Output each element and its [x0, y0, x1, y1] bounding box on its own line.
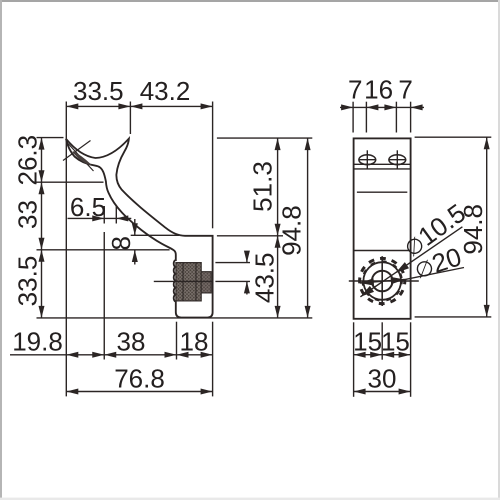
arrowheads 15 right	[382, 352, 394, 358]
extension line top right view	[415, 136, 492, 138]
leader line diameter 20 (polyline)	[360, 268, 464, 284]
arrowheads 33.5	[66, 103, 78, 109]
svg-text:7: 7	[398, 75, 412, 105]
screw 2 horizontal slot line	[388, 159, 406, 161]
extension line y=138.1 top right	[217, 137, 312, 139]
knurl serration dashed ring	[360, 258, 405, 303]
plate parting line (inset)	[357, 191, 407, 193]
screw 1 horizontal slot line	[358, 159, 376, 161]
dimension line 19.8/38/18	[10, 354, 213, 356]
dimension line 30	[354, 391, 411, 393]
dimension line left column	[41, 138, 43, 318]
leader arrowheads diameter 20	[391, 276, 406, 284]
extension line x=104.3 lower part	[103, 232, 105, 360]
svg-text:16: 16	[364, 75, 393, 105]
svg-text:51.3: 51.3	[248, 161, 278, 212]
svg-text:43.2: 43.2	[140, 76, 191, 106]
svg-text:15: 15	[353, 327, 382, 357]
small dim lower segment x=246.9	[246, 281, 248, 294]
arrowheads 43.2	[130, 103, 142, 109]
arrowheads 18	[177, 352, 189, 358]
border frame	[0, 0, 500, 2]
arrowheads 33.5 left	[39, 250, 45, 262]
screw 2 ellipse head	[389, 155, 406, 165]
svg-text:26.3: 26.3	[13, 135, 43, 186]
svg-text:33: 33	[13, 200, 43, 229]
bracket side-view outline (saddle, arm, wall plate)	[66, 139, 213, 318]
svg-text:76.8: 76.8	[114, 363, 165, 393]
extension line bottom right view	[415, 316, 492, 318]
dimension line 15/15	[354, 354, 411, 356]
extension line knurl centre y=281.4	[215, 280, 250, 282]
arrowhead right 7 (outside)	[411, 104, 423, 110]
dimension line 7/16/7	[340, 106, 424, 108]
arrowheads 19.8	[66, 352, 78, 358]
extension line saddle centre (x=130.4)	[129, 102, 131, 135]
dimension line 8 (lower segment)	[134, 250, 136, 264]
dimension line 76.8	[66, 391, 212, 393]
dimension line 8 (upper segment)	[134, 219, 136, 235]
extension line wall face (x=212.6)	[212, 102, 214, 229]
arrowheads 6.5 (outside)	[92, 215, 104, 221]
svg-text:33.5: 33.5	[73, 76, 124, 106]
extension line left tip (x=66.3)	[65, 102, 67, 397]
dimension line 6.5	[68, 217, 132, 219]
arrowheads 15 left	[354, 352, 366, 358]
leader line diameter 10.5	[360, 227, 462, 297]
arrowheads 26.3	[39, 138, 45, 150]
extension line 8-dim top y=235.3	[131, 234, 179, 236]
dimension line 33.5/43.2	[66, 105, 212, 107]
extension line y=182.2	[37, 181, 104, 183]
arrowheads 33 left	[39, 182, 45, 194]
svg-text:38: 38	[117, 327, 146, 357]
center line through knurl	[154, 280, 213, 282]
threaded stud protruding to wall	[201, 272, 211, 293]
svg-text:18: 18	[180, 327, 209, 357]
screw band line upper	[354, 163, 411, 165]
svg-text:15: 15	[381, 327, 410, 357]
dimension line 51.3/43.5	[277, 138, 279, 318]
leader arrowheads diameter 10.5	[393, 262, 409, 276]
knurl serration inner dashed ring	[362, 261, 402, 301]
arrowheads 8 (outside)	[132, 223, 138, 235]
knurled nut side view (cross-hatched)	[176, 263, 201, 301]
svg-text:8: 8	[106, 236, 136, 250]
arrowheads 16	[366, 104, 378, 110]
svg-text:6.5: 6.5	[70, 192, 106, 222]
svg-text:33.5: 33.5	[13, 256, 43, 307]
arrowheads 94.8 right view	[484, 137, 490, 149]
extension line x=212.6 below plate	[212, 322, 214, 397]
hole circle 10.5 front view	[372, 271, 393, 292]
extension line x=176.5 below plate	[176, 322, 178, 360]
screw 1 ellipse head	[359, 155, 376, 165]
arrowheads 76.8	[66, 389, 78, 395]
svg-text:43.5: 43.5	[250, 252, 280, 303]
extension line y=137.6	[37, 137, 64, 139]
knurl inner division lines	[182, 263, 184, 301]
extension line y=235.8 plate top	[217, 235, 283, 237]
svg-text:30: 30	[368, 364, 397, 394]
bottom extension line y=317.9	[37, 317, 313, 319]
knurl horizontal centre line	[349, 280, 419, 282]
extension line y=249.8 (also 8-dim reference)	[37, 249, 170, 251]
extension line knurl top y=262.6	[215, 262, 250, 264]
section mark X line 2 on saddle	[63, 141, 91, 161]
svg-text:19.8: 19.8	[12, 327, 63, 357]
svg-text:94.8: 94.8	[458, 204, 488, 255]
arrowheads 38	[104, 352, 116, 358]
screw 1 vertical slot line	[366, 150, 368, 169]
extension ticks 7/16/7	[352, 102, 354, 133]
knurl vertical centre line	[381, 256, 383, 306]
knurl section top line	[354, 250, 411, 252]
svg-text:94.8: 94.8	[277, 205, 307, 256]
screw 2 vertical slot line	[396, 150, 398, 169]
knurled nut outer circle front view	[363, 262, 401, 300]
arrowheads 43.5	[275, 236, 281, 248]
dimension line 94.8 right view	[486, 137, 488, 317]
wall plate front-view rectangle	[354, 138, 411, 318]
section mark X line 1 on saddle	[68, 144, 94, 172]
arrowheads 51.3	[275, 138, 281, 150]
arrowheads small dim (outside)	[244, 251, 250, 263]
screw band line lower	[354, 168, 411, 170]
extension lines 15/15/30	[353, 322, 355, 397]
arrowheads 30	[354, 389, 366, 395]
arrowheads 94.8 left view	[305, 138, 311, 150]
arrowhead left 7 (outside)	[341, 104, 353, 110]
extension ticks 6.5	[103, 206, 105, 224]
dimension line 94.8 left view	[307, 138, 309, 318]
small dim upper segment x=246.9	[246, 253, 248, 263]
hatched section sliver on saddle	[73, 152, 91, 165]
svg-text:7: 7	[348, 75, 362, 105]
